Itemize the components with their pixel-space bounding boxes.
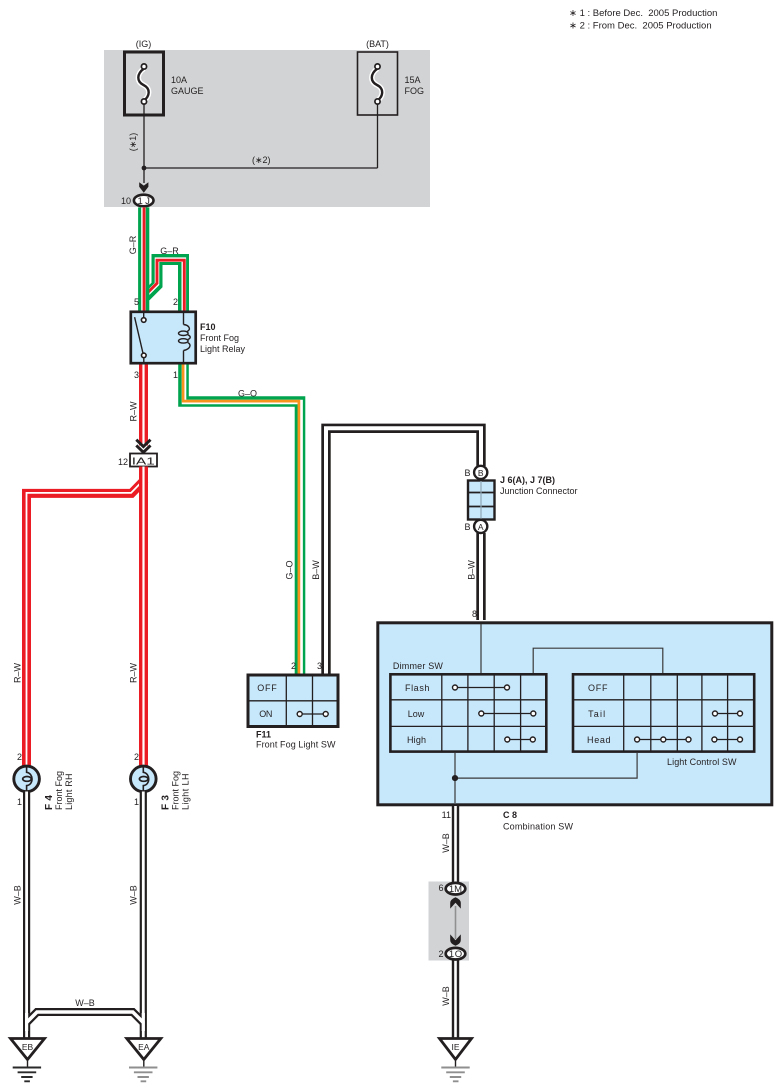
svg-text:10A: 10A	[171, 75, 187, 85]
svg-text:High: High	[407, 735, 426, 745]
svg-text:(∗1): (∗1)	[128, 133, 138, 152]
svg-text:8: 8	[472, 609, 477, 619]
svg-text:Front Fog: Front Fog	[171, 771, 181, 810]
svg-text:1O: 1O	[449, 949, 462, 960]
svg-text:F11: F11	[256, 730, 271, 740]
svg-text:FOG: FOG	[405, 86, 425, 96]
svg-text:OFF: OFF	[588, 683, 608, 693]
svg-text:Junction Connector: Junction Connector	[500, 486, 578, 496]
svg-text:2: 2	[173, 297, 178, 307]
svg-text:Light Control SW: Light Control SW	[667, 757, 737, 767]
svg-text:G–O: G–O	[238, 389, 257, 399]
svg-text:B: B	[478, 468, 484, 478]
svg-text:B–W: B–W	[467, 560, 477, 580]
svg-text:2: 2	[134, 752, 139, 762]
svg-text:OFF: OFF	[257, 683, 277, 693]
svg-text:3: 3	[134, 370, 139, 380]
svg-text:ON: ON	[259, 709, 272, 719]
svg-text:Flash: Flash	[405, 683, 430, 693]
svg-text:2: 2	[438, 949, 443, 959]
svg-text:6: 6	[438, 883, 443, 893]
svg-text:R–W: R–W	[128, 401, 138, 422]
svg-text:11: 11	[442, 810, 451, 820]
svg-text:G–O: G–O	[285, 560, 295, 579]
svg-text:B–W: B–W	[311, 560, 321, 580]
svg-text:EA: EA	[138, 1042, 150, 1052]
svg-text:1: 1	[134, 797, 139, 807]
svg-text:IA1: IA1	[132, 456, 155, 468]
svg-text:W–B: W–B	[441, 833, 451, 853]
svg-text:(BAT): (BAT)	[366, 39, 389, 49]
svg-text:Combination SW: Combination SW	[503, 822, 574, 832]
svg-text:W–B: W–B	[75, 998, 95, 1008]
svg-text:GAUGE: GAUGE	[171, 86, 204, 96]
svg-text:Front Fog: Front Fog	[200, 333, 239, 343]
svg-text:∗ 1 : Before Dec. 2005 Produc: ∗ 1 : Before Dec. 2005 Production	[569, 8, 717, 19]
svg-text:W–B: W–B	[129, 885, 139, 905]
svg-text:(∗2): (∗2)	[252, 155, 271, 165]
svg-text:3: 3	[317, 661, 322, 671]
svg-text:G–R: G–R	[128, 235, 138, 254]
svg-text:C 8: C 8	[503, 810, 517, 820]
svg-text:1: 1	[173, 370, 178, 380]
svg-text:IE: IE	[451, 1042, 459, 1052]
svg-text:G–R: G–R	[160, 246, 179, 256]
svg-text:1M: 1M	[449, 884, 462, 895]
svg-text:W–B: W–B	[13, 885, 23, 905]
svg-text:Light Relay: Light Relay	[200, 344, 246, 354]
svg-text:B: B	[464, 522, 470, 532]
svg-text:Light RH: Light RH	[64, 774, 74, 811]
svg-text:2: 2	[291, 661, 296, 671]
svg-text:Dimmer SW: Dimmer SW	[393, 661, 444, 671]
svg-text:Front Fog Light SW: Front Fog Light SW	[256, 739, 336, 749]
svg-text:(IG): (IG)	[136, 39, 152, 49]
svg-text:A: A	[478, 522, 484, 532]
svg-text:2: 2	[17, 752, 22, 762]
svg-text:∗ 2 : From Dec. 2005 Producti: ∗ 2 : From Dec. 2005 Production	[569, 21, 712, 32]
svg-text:15A: 15A	[405, 75, 421, 85]
svg-text:EB: EB	[22, 1042, 34, 1052]
svg-text:Tail: Tail	[588, 709, 605, 719]
svg-text:R–W: R–W	[129, 662, 139, 683]
svg-text:Light LH: Light LH	[181, 774, 191, 811]
svg-text:W–B: W–B	[441, 986, 451, 1006]
svg-text:10: 10	[121, 196, 131, 206]
svg-text:Low: Low	[408, 709, 425, 719]
svg-text:Head: Head	[587, 735, 611, 745]
svg-text:5: 5	[134, 297, 139, 307]
svg-text:12: 12	[118, 457, 128, 467]
svg-text:1: 1	[17, 797, 22, 807]
svg-text:F10: F10	[200, 322, 216, 332]
svg-text:R–W: R–W	[13, 662, 23, 683]
svg-text:J 6(A), J 7(B): J 6(A), J 7(B)	[500, 475, 555, 485]
svg-text:Front Fog: Front Fog	[54, 771, 64, 810]
svg-text:B: B	[464, 468, 470, 478]
